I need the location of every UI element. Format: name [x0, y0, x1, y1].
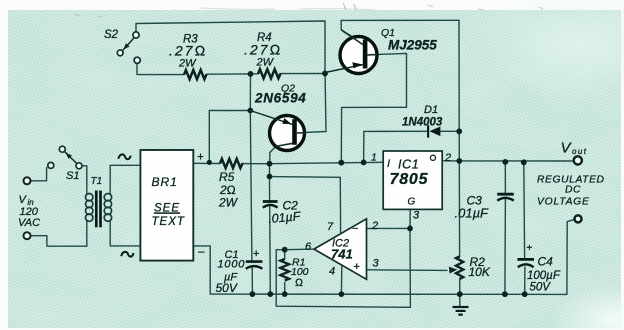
- wire: node to C2 top plate: [269, 177, 271, 201]
- svg-text:SEE: SEE: [154, 203, 180, 215]
- svg-text:Ω: Ω: [295, 277, 303, 289]
- junction C4 top: [521, 159, 527, 165]
- junction D1 branch on pin1 line: [361, 160, 367, 166]
- wire: mid node to R4: [251, 73, 259, 75]
- junction C3 top: [502, 159, 508, 165]
- svg-text:.27Ω: .27Ω: [169, 43, 207, 59]
- wire: C2 bottom lead down to ground rail: [269, 207, 272, 294]
- wire: BR1 minus output down to ground rail: [193, 246, 210, 294]
- wire: IC2 pin3 line to R2 wiper: [367, 269, 448, 272]
- wire: Q1 collector to top rail two: [341, 20, 364, 44]
- wire: D1 anode to output vertical: [440, 130, 459, 132]
- wire: S2 lower throw to R3: [137, 63, 184, 74]
- svg-text:4: 4: [329, 266, 335, 278]
- wire: ground stub below rail at R2: [459, 294, 461, 307]
- junction C1 on ground rail: [250, 291, 256, 297]
- wire: R4 to right node: [280, 73, 325, 75]
- wire: Q1 base run down and over to pin1 line: [341, 53, 406, 162]
- svg-text:10K: 10K: [469, 265, 491, 279]
- svg-text:6: 6: [305, 241, 312, 253]
- svg-text:100µF: 100µF: [527, 270, 561, 282]
- capacitor C3: [497, 194, 514, 200]
- transistor Q2 2N6594: [250, 111, 306, 151]
- svg-text:2: 2: [371, 220, 378, 232]
- op-amp IC2 triangle: [314, 219, 367, 279]
- wire: IC1 ground pin feedback run: [276, 209, 410, 307]
- svg-text:7805: 7805: [390, 171, 429, 188]
- svg-text:VAC: VAC: [18, 217, 40, 229]
- wire: R1 bottom lead: [284, 283, 286, 295]
- wire: R1 top lead: [284, 250, 286, 259]
- junction R5 output / C2 node: [267, 161, 273, 167]
- wire: Vin neutral lead to T1 primary: [31, 236, 87, 247]
- wire: Q2 base node vertical down to pin1 line: [363, 131, 365, 162]
- svg-text:741: 741: [331, 247, 353, 262]
- svg-text:1: 1: [371, 152, 377, 164]
- wire: IC2 pin7 supply feed: [270, 177, 341, 234]
- junction C2 on ground rail: [267, 291, 273, 297]
- wire: C1 bottom lead to ground rail: [251, 268, 253, 294]
- junction IC1 G pin on IC2 pin2 line: [407, 226, 413, 232]
- wire: Vin hot lead to S1: [31, 168, 47, 181]
- switch S1: [48, 146, 82, 169]
- pencil smudge top edge: [200, 8, 375, 10]
- potentiometer R2: [449, 257, 463, 279]
- svg-text:C4: C4: [538, 255, 554, 269]
- label IC1 pin circle: [430, 155, 435, 160]
- wire: output line to Vout terminal: [459, 160, 574, 162]
- svg-text:.01µF: .01µF: [455, 206, 490, 221]
- wire: T1 primary bottom lead: [86, 221, 88, 247]
- wire: D1 cathode line: [364, 130, 427, 132]
- resistor R4: [258, 69, 281, 78]
- capacitor C2: [263, 202, 278, 208]
- svg-text:IC1: IC1: [398, 158, 419, 172]
- wire: T1 secondary bottom lead to BR1: [110, 221, 140, 246]
- junction R1 on ground rail: [282, 291, 288, 297]
- svg-text:.27Ω: .27Ω: [244, 42, 282, 58]
- junction R1 top / pin6 node: [282, 247, 288, 253]
- svg-text:2W: 2W: [256, 57, 275, 69]
- junction Q1 base line on pin1 line: [338, 160, 344, 166]
- junction D1 anode on output column: [456, 128, 462, 134]
- wire: Q2 emitter node left and down to BR1 plus line: [209, 111, 250, 163]
- svg-text:TEXT: TEXT: [152, 216, 185, 228]
- wire: C2 node down to op-amp supply node: [269, 164, 271, 177]
- svg-text:D1: D1: [424, 104, 438, 116]
- junction C3 on ground rail: [502, 291, 508, 297]
- resistor R3: [184, 70, 206, 79]
- svg-text:BR1: BR1: [152, 175, 178, 189]
- svg-text:3: 3: [413, 210, 420, 222]
- wire: R5 to C2 top node: [242, 163, 270, 165]
- wire: bottom ground rail: [210, 293, 567, 295]
- svg-text:2W: 2W: [178, 58, 197, 70]
- ground symbol: [453, 307, 469, 315]
- svg-text:−: −: [352, 223, 358, 235]
- svg-text:3: 3: [373, 258, 380, 270]
- svg-text:2W: 2W: [218, 196, 239, 210]
- wire: C4 bottom lead: [524, 267, 526, 294]
- wire: C3 bottom lead: [504, 199, 507, 294]
- svg-text:+: +: [527, 243, 533, 254]
- svg-text:50V: 50V: [530, 282, 552, 294]
- svg-text:+: +: [253, 248, 259, 260]
- wire: top rail from S2 up-stub to R4 right node: [136, 21, 325, 71]
- junction R2 ground on rail: [457, 291, 463, 297]
- junction C4 on ground rail: [522, 291, 528, 297]
- wire: S1 to T1 primary top: [82, 166, 87, 194]
- wire: IC2 pin2 line: [367, 227, 411, 229]
- wire: R3/R4 mid node down to Q2 emitter node: [249, 74, 251, 111]
- wire: R4 right node down to Q2 base: [298, 71, 327, 133]
- terminal Vin bottom: [24, 232, 31, 239]
- wire: IC2 pin4 to ground rail: [340, 265, 342, 294]
- transistor Q1 MJ2955: [325, 30, 377, 74]
- svg-text:−: −: [198, 245, 206, 260]
- junction BR1 plus / R5 input: [207, 160, 212, 165]
- resistor R5: [220, 159, 242, 168]
- bridge rectifier BR1 box: [140, 150, 193, 261]
- wire: IC1 pin2 to output node: [442, 160, 459, 162]
- transformer T1: [86, 191, 112, 228]
- terminal Vin top: [24, 177, 31, 184]
- svg-text:R5: R5: [219, 170, 235, 184]
- svg-text:2N6594: 2N6594: [254, 91, 307, 106]
- wire: C3 top lead: [504, 162, 506, 194]
- wire: lower output terminal return: [567, 219, 575, 294]
- svg-text:+: +: [197, 150, 204, 164]
- wire: C4 top lead: [523, 162, 526, 258]
- svg-text:VOLTAGE: VOLTAGE: [537, 197, 590, 208]
- AC tilde bottom input: [121, 252, 133, 257]
- resistor R1: [280, 259, 289, 281]
- svg-text:1000: 1000: [218, 259, 246, 271]
- junction Q2 emitter node: [247, 108, 253, 114]
- svg-text:+: +: [354, 261, 360, 273]
- terminal output return: [575, 215, 582, 222]
- svg-text:MJ2955: MJ2955: [388, 38, 437, 53]
- svg-text:G: G: [408, 197, 416, 208]
- wire: IC2 pin6 output to R1: [285, 248, 315, 251]
- svg-text:1N4003: 1N4003: [402, 117, 443, 129]
- svg-text:out: out: [572, 147, 587, 156]
- wire: R2 bottom lead to ground rail: [459, 279, 461, 294]
- svg-text:T1: T1: [91, 176, 103, 187]
- svg-text:2: 2: [444, 152, 451, 164]
- light patch top right: [474, 0, 624, 103]
- AC tilde top input: [118, 154, 130, 159]
- diode D1 1N4003: [427, 125, 440, 137]
- regulator IC1 box: [383, 151, 442, 209]
- light patch bottom right corner: [552, 284, 624, 330]
- junction IC1 pin2 output node: [456, 158, 462, 164]
- switch S2: [117, 32, 140, 64]
- capacitor C4 (electrolytic): [517, 259, 534, 267]
- wire: raw DC vertical from Q2 emitter node down to C1: [250, 111, 252, 261]
- svg-text:7: 7: [327, 221, 334, 233]
- svg-text:S2: S2: [104, 29, 119, 41]
- wire: IC1 pin1 input line: [270, 162, 384, 163]
- terminal Vout: [574, 156, 582, 164]
- wire: top rail two to right vertical: [341, 19, 459, 21]
- wire: Q2 collector down to R5 output node: [270, 146, 276, 163]
- junction IC2 pin4 on ground rail: [339, 291, 345, 297]
- svg-text:50V: 50V: [216, 281, 238, 295]
- svg-text:I: I: [387, 158, 390, 170]
- capacitor C1 (electrolytic): [246, 262, 263, 269]
- junction R3/R4 mid node: [248, 71, 254, 77]
- wire: BR1 plus output to R5: [193, 162, 220, 164]
- junction op-amp supply tap: [267, 174, 273, 180]
- wire: R3 to mid node: [207, 73, 251, 75]
- svg-text:DC: DC: [565, 185, 581, 196]
- junction R4 right node: [322, 71, 328, 77]
- svg-text:.01µF: .01µF: [268, 209, 303, 226]
- svg-text:S1: S1: [66, 170, 79, 182]
- wire: T1 secondary top lead to BR1: [110, 165, 140, 194]
- wire: right vertical unregulated-to-output column: [458, 20, 461, 256]
